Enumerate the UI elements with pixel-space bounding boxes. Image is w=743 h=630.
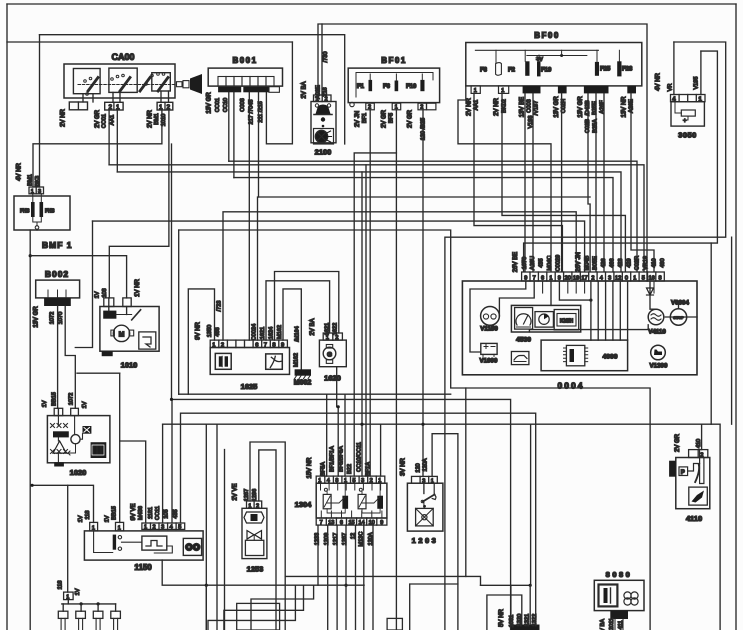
svg-text:2100: 2100: [315, 148, 332, 157]
svg-text:10: 10: [369, 520, 375, 526]
svg-text:BF1/BF1A: BF1/BF1A: [330, 446, 336, 472]
svg-text:V1300: V1300: [650, 363, 668, 370]
svg-text:1150: 1150: [134, 563, 152, 572]
svg-text:2V GR: 2V GR: [95, 109, 101, 128]
svg-text:BB15: BB15: [52, 392, 58, 406]
svg-text:1V: 1V: [82, 401, 88, 408]
svg-text:1: 1: [116, 104, 120, 111]
svg-text:120A: 120A: [423, 458, 429, 471]
svg-text:CC10: CC10: [223, 98, 229, 112]
svg-text:410: 410: [696, 439, 702, 448]
svg-text:1072: 1072: [50, 312, 56, 324]
svg-text:1V: 1V: [105, 515, 111, 522]
svg-text:6: 6: [340, 520, 343, 526]
svg-text:B05E: B05E: [593, 256, 599, 270]
svg-text:/M164: /M164: [295, 326, 301, 342]
svg-text:V0004: V0004: [671, 300, 689, 307]
svg-text:8080: 8080: [606, 570, 633, 579]
svg-text:C0029: C0029: [555, 255, 561, 271]
svg-text:M002: M002: [294, 380, 312, 387]
svg-text:C0024: C0024: [252, 324, 258, 340]
svg-text:1181: 1181: [148, 507, 154, 519]
svg-text:460: 460: [660, 258, 666, 267]
svg-text:466: 466: [215, 327, 221, 336]
svg-text:+: +: [683, 119, 687, 125]
svg-text:3050: 3050: [678, 131, 697, 140]
svg-text:2011: 2011: [609, 618, 615, 630]
svg-text:9: 9: [380, 520, 383, 526]
svg-text:4V NR: 4V NR: [17, 162, 23, 180]
svg-text:1625: 1625: [241, 382, 258, 391]
svg-text:F25: F25: [600, 67, 611, 73]
svg-text:G: G: [327, 352, 332, 359]
svg-text:M162: M162: [294, 353, 300, 367]
svg-text:435: 435: [539, 258, 545, 267]
svg-text:1287: 1287: [244, 489, 250, 501]
svg-text:A28U: A28U: [530, 256, 536, 270]
svg-text:F1: F1: [357, 84, 365, 90]
svg-text:9V VE: 9V VE: [131, 503, 137, 520]
svg-text:CC10/CC11: CC10/CC11: [357, 442, 363, 472]
svg-text:435: 435: [173, 509, 179, 518]
svg-text:5: 5: [178, 525, 181, 531]
svg-text:410: 410: [651, 258, 657, 267]
svg-text:1621: 1621: [325, 323, 331, 335]
svg-text:2: 2: [153, 525, 156, 531]
svg-text:C003: C003: [240, 98, 246, 111]
svg-text:118: 118: [58, 581, 64, 590]
svg-text:1072: 1072: [69, 393, 75, 405]
svg-text:2V BA: 2V BA: [310, 318, 316, 335]
svg-text:5V NR: 5V NR: [499, 608, 505, 626]
svg-text:BK3: BK3: [35, 176, 41, 187]
svg-text:1V BA: 1V BA: [600, 619, 606, 630]
svg-text:4V NR: 4V NR: [656, 72, 662, 90]
svg-text:BMF 1: BMF 1: [42, 240, 73, 250]
svg-text:1V: 1V: [42, 400, 48, 407]
svg-text:423: 423: [618, 258, 624, 267]
svg-text:M436: M436: [138, 506, 144, 520]
svg-text:KM/H: KM/H: [560, 319, 574, 325]
svg-text:2V GR: 2V GR: [675, 433, 681, 452]
svg-text:4: 4: [170, 525, 173, 531]
svg-text:B002: B002: [45, 269, 69, 279]
svg-text:2V NR: 2V NR: [61, 108, 67, 126]
svg-text:9V NR: 9V NR: [196, 321, 202, 339]
svg-text:1070: 1070: [58, 312, 64, 324]
svg-text:F28: F28: [622, 67, 633, 73]
svg-text:B25E: B25E: [592, 101, 598, 115]
svg-text:1010: 1010: [161, 114, 167, 126]
svg-text:CC01: CC01: [215, 98, 221, 112]
svg-text:26V BE: 26V BE: [513, 252, 519, 272]
svg-text:1020: 1020: [70, 468, 87, 477]
svg-text:BM1: BM1: [28, 174, 34, 186]
svg-text:M162: M162: [277, 325, 283, 339]
svg-text:1: 1: [144, 525, 147, 531]
svg-text:1320: 1320: [517, 614, 523, 626]
svg-text:CA00: CA00: [111, 52, 134, 62]
svg-text:1350: 1350: [207, 325, 213, 337]
svg-text:15: 15: [348, 520, 354, 526]
svg-text:466: 466: [610, 258, 616, 267]
svg-text:13V GR: 13V GR: [554, 96, 560, 118]
svg-text:4110: 4110: [686, 514, 702, 523]
svg-text:429: 429: [626, 258, 632, 267]
svg-text:1624: 1624: [269, 327, 275, 339]
svg-text:0004: 0004: [558, 381, 585, 391]
svg-text:/730: /730: [323, 52, 329, 63]
svg-text:426: 426: [601, 258, 607, 267]
svg-text:3V NR: 3V NR: [401, 457, 407, 475]
svg-text:V1150: V1150: [480, 326, 498, 333]
svg-text:1322: 1322: [532, 614, 538, 626]
svg-text:CC11: CC11: [155, 506, 161, 520]
svg-text:2V VE: 2V VE: [233, 483, 239, 500]
svg-text:M: M: [119, 332, 125, 339]
svg-text:B001: B001: [232, 56, 257, 65]
svg-text:2V JN: 2V JN: [355, 111, 361, 127]
svg-text:1V: 1V: [75, 588, 81, 595]
svg-text:F19: F19: [541, 68, 552, 74]
svg-text:BF5/BF5A: BF5/BF5A: [339, 446, 345, 472]
svg-text:1209: 1209: [324, 533, 330, 545]
svg-text:1217: 1217: [333, 533, 339, 545]
svg-text:3: 3: [38, 189, 41, 195]
svg-text:A02E: A02E: [316, 85, 322, 99]
svg-text:216: 216: [323, 87, 329, 96]
svg-text:26V JN: 26V JN: [576, 252, 582, 272]
svg-text:BF5: BF5: [388, 113, 394, 123]
svg-text:1620: 1620: [324, 374, 341, 383]
svg-text:F8: F8: [480, 68, 488, 74]
svg-text:15V NR: 15V NR: [307, 457, 313, 479]
svg-text:CC01: CC01: [102, 114, 108, 128]
svg-text:3: 3: [161, 525, 164, 531]
svg-text:1010: 1010: [121, 361, 138, 370]
svg-text:1: 1: [159, 104, 163, 111]
svg-text:13V GR: 13V GR: [578, 96, 584, 118]
svg-text:13V NR: 13V NR: [622, 96, 628, 118]
svg-text:F6: F6: [383, 84, 391, 90]
svg-text:1V: 1V: [78, 515, 84, 522]
svg-text:2V NR: 2V NR: [494, 97, 500, 115]
svg-text:V4110: V4110: [648, 329, 666, 336]
svg-text:/V197: /V197: [534, 101, 540, 116]
svg-text:4000: 4000: [602, 354, 617, 361]
svg-text:1V NR: 1V NR: [135, 278, 141, 296]
svg-text:/723: /723: [217, 301, 223, 312]
svg-text:1: 1: [118, 526, 121, 532]
svg-text:B22: B22: [347, 464, 353, 474]
svg-text:VR: VR: [668, 84, 674, 92]
svg-text:118: 118: [85, 511, 91, 520]
svg-text:BB15: BB15: [112, 506, 118, 520]
svg-text:F10: F10: [406, 84, 417, 90]
svg-text:1622: 1622: [333, 323, 339, 335]
svg-text:1031: 1031: [509, 615, 515, 627]
svg-text:V195: V195: [694, 76, 700, 89]
svg-text:1304: 1304: [295, 500, 313, 509]
svg-text:C003: C003: [527, 99, 533, 112]
svg-text:FH3: FH3: [20, 209, 30, 215]
svg-text:2V NR: 2V NR: [467, 97, 473, 115]
svg-text:M04B: M04B: [584, 255, 590, 270]
svg-text:2V GR: 2V GR: [408, 109, 414, 128]
svg-text:F2: F2: [508, 68, 516, 74]
svg-text:13V GR: 13V GR: [34, 306, 40, 328]
svg-text:13V GR: 13V GR: [207, 92, 213, 114]
svg-text:2V GR: 2V GR: [382, 109, 388, 128]
svg-text:2V BA: 2V BA: [302, 81, 308, 98]
svg-text:V1000: V1000: [480, 358, 498, 365]
svg-text:BF1A: BF1A: [366, 462, 372, 476]
svg-text:4530: 4530: [516, 337, 531, 344]
svg-text:P: P: [681, 470, 685, 476]
svg-text:BF00: BF00: [534, 31, 560, 40]
svg-text:1203: 1203: [412, 536, 439, 545]
svg-text:7: 7: [320, 520, 323, 526]
svg-text:1287: 1287: [342, 533, 348, 545]
svg-text:BF1: BF1: [362, 113, 368, 123]
svg-text:1V: 1V: [95, 291, 101, 298]
svg-text:BF5A: BF5A: [321, 462, 327, 476]
svg-text:105: 105: [164, 509, 170, 518]
svg-text:M04C: M04C: [547, 256, 553, 271]
svg-text:1296: 1296: [252, 489, 258, 501]
svg-text:1070: 1070: [522, 257, 528, 269]
svg-text:13: 13: [328, 520, 334, 526]
svg-text:108: 108: [102, 288, 108, 297]
svg-text:BM1: BM1: [154, 113, 160, 125]
svg-text:1621: 1621: [260, 327, 266, 339]
svg-text:BF01: BF01: [381, 56, 407, 65]
svg-text:C02R: C02R: [635, 256, 641, 270]
svg-text:2V NR: 2V NR: [148, 109, 154, 127]
svg-text:1253: 1253: [247, 565, 264, 574]
svg-text:AA1: AA1: [110, 115, 116, 126]
svg-text:FH3: FH3: [45, 209, 55, 215]
svg-text:+V: +V: [536, 57, 543, 63]
svg-text:VR19: VR19: [643, 256, 649, 270]
svg-text:120: 120: [416, 463, 422, 472]
